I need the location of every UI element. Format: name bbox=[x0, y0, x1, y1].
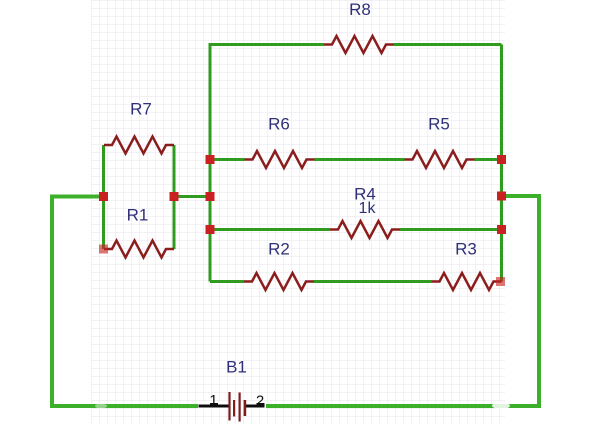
junction node right bus connector row bbox=[497, 192, 506, 201]
wire R5 right segment bbox=[475, 158, 502, 161]
resistor R3 bbox=[432, 273, 502, 290]
svg-text:R3: R3 bbox=[455, 240, 477, 259]
wire R4 row right segment bbox=[400, 228, 502, 231]
wire middle bus bbox=[210, 45, 324, 282]
resistor R8 bbox=[324, 36, 394, 53]
pin 2 lead bbox=[245, 405, 265, 408]
wire middle connector bbox=[174, 195, 210, 198]
svg-text:B1: B1 bbox=[226, 358, 247, 377]
grid background bbox=[91, 0, 505, 424]
white gap for battery bbox=[198, 403, 266, 410]
wire left block left vertical bbox=[102, 145, 105, 249]
wire R2-R3 middle segment bbox=[314, 280, 432, 283]
wire R6-R5 middle segment bbox=[315, 158, 405, 161]
resistor R6 bbox=[245, 151, 315, 168]
svg-text:R5: R5 bbox=[428, 115, 450, 134]
wire faint highlight near bottom-left bbox=[95, 404, 107, 409]
svg-text:R7: R7 bbox=[130, 100, 152, 119]
wire right inner bus bbox=[500, 45, 503, 282]
long plate bbox=[239, 393, 241, 422]
long plate bbox=[228, 392, 230, 421]
resistor R2 bbox=[244, 273, 314, 290]
junction node mid bus connector row bbox=[206, 192, 215, 201]
svg-text:R2: R2 bbox=[268, 240, 290, 259]
svg-text:R6: R6 bbox=[268, 115, 290, 134]
junction node at R7/R1 right bbox=[170, 192, 179, 201]
wire R8 row right segment bbox=[394, 43, 502, 46]
short plate bbox=[233, 400, 235, 417]
junction node mid bus R4 row bbox=[206, 225, 215, 234]
svg-text:R1: R1 bbox=[127, 206, 149, 225]
wire R6 row left segment bbox=[210, 158, 245, 161]
resistor R7 bbox=[104, 137, 174, 154]
svg-text:1: 1 bbox=[209, 392, 217, 409]
svg-text:2: 2 bbox=[256, 393, 264, 410]
wire left block right vertical bbox=[173, 145, 176, 249]
junction node right bus R6 row bbox=[497, 155, 506, 164]
junction node mid bus R6 row bbox=[206, 155, 215, 164]
resistor R1 bbox=[104, 241, 174, 258]
short plate bbox=[244, 400, 247, 416]
wire R4 row left segment bbox=[210, 228, 330, 231]
pin 1 lead bbox=[199, 405, 229, 408]
wire R2 row left segment bbox=[210, 280, 244, 283]
junction node R1 left faded bbox=[99, 245, 108, 254]
svg-text:1k: 1k bbox=[359, 200, 377, 217]
junction node at R7/R1 left bbox=[99, 192, 108, 201]
junction node R3 right faded bbox=[496, 277, 505, 286]
wire outer loop bbox=[52, 196, 539, 406]
resistor R5 bbox=[405, 151, 475, 168]
svg-text:R8: R8 bbox=[349, 0, 371, 19]
battery B1 bbox=[199, 392, 265, 422]
wire highlight artifact near bottom-right corner bbox=[492, 403, 510, 409]
junction node right bus R4 row bbox=[497, 225, 506, 234]
resistor R4 bbox=[330, 221, 400, 238]
